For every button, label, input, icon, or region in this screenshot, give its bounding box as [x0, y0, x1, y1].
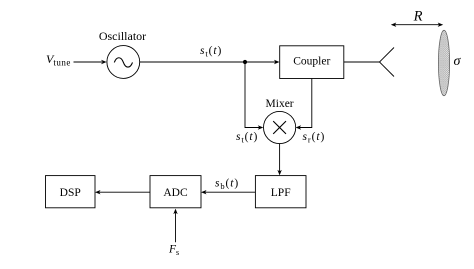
svg-text:Vtune: Vtune — [46, 52, 71, 68]
svg-text:σ: σ — [454, 54, 462, 69]
svg-text:Fs: Fs — [168, 244, 179, 258]
svg-text:ADC: ADC — [163, 187, 188, 199]
svg-text:DSP: DSP — [60, 187, 81, 199]
svg-text:sb(t): sb(t) — [215, 178, 239, 191]
svg-text:sr(t): sr(t) — [303, 131, 326, 144]
svg-text:Oscillator: Oscillator — [99, 29, 146, 43]
svg-text:st(t): st(t) — [200, 45, 222, 58]
svg-text:LPF: LPF — [271, 187, 291, 199]
svg-text:R: R — [413, 9, 423, 25]
svg-text:st(t): st(t) — [236, 131, 258, 144]
svg-text:Mixer: Mixer — [266, 98, 294, 110]
svg-text:Coupler: Coupler — [293, 56, 330, 68]
